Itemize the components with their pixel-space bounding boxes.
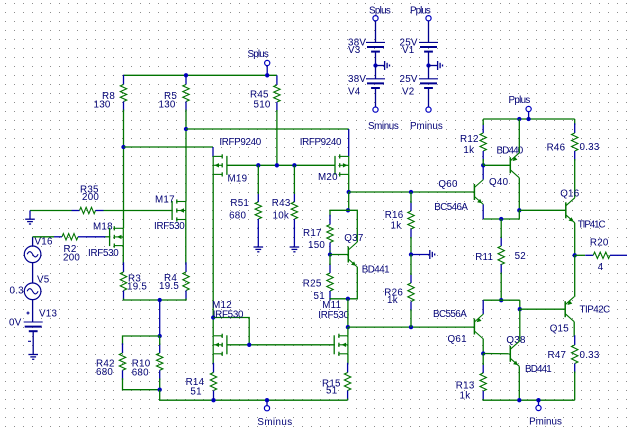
resistor R13 (480, 363, 486, 400)
svg-text:52: 52 (515, 251, 526, 262)
label R8 (102, 91, 115, 102)
svg-text:V16: V16 (35, 236, 53, 247)
mosfet M11 (334, 334, 348, 356)
wire down to Q38 collector (519, 309, 521, 341)
svg-text:Pminus: Pminus (410, 121, 443, 132)
wire R46 corner (574, 119, 576, 125)
wire R11 feed (500, 219, 502, 238)
transistor Q60 BC546A (474, 180, 483, 205)
wire V2 bottom lead (428, 88, 430, 107)
svg-text:IRFP9240: IRFP9240 (219, 137, 261, 148)
wire R12 bottom (482, 159, 484, 165)
svg-text:BC556A: BC556A (433, 309, 467, 320)
junction R16 top (409, 190, 413, 194)
battery V1 (419, 42, 438, 51)
wire R51 lead (257, 165, 259, 194)
svg-text:IRFP9240: IRFP9240 (300, 137, 342, 148)
svg-text:51: 51 (314, 291, 325, 302)
resistor R10 (157, 343, 163, 380)
svg-text:51: 51 (326, 386, 337, 397)
label R25 (303, 278, 322, 289)
resistor R42 (119, 343, 125, 380)
svg-text:M20: M20 (318, 172, 338, 183)
wire Pplus terminal lead (528, 112, 530, 120)
wire R20 output lead (618, 254, 627, 256)
wire R26 bottom (410, 310, 412, 328)
svg-text:4: 4 (598, 262, 604, 273)
wire V3 top lead (375, 21, 377, 43)
resistor R25 (327, 263, 333, 300)
wire V16 top lead (32, 237, 34, 246)
junction at Splus tap (265, 73, 269, 77)
wire y210 to Q16 base (519, 209, 566, 211)
wire M11 source to R15 (347, 354, 349, 365)
label Pplus of V1 (410, 5, 431, 16)
svg-text:V2: V2 (402, 87, 414, 98)
wire Pminus terminal lead (538, 400, 540, 405)
junction R11 top (499, 217, 503, 221)
label 51 of R14 (190, 386, 201, 397)
svg-text:680: 680 (132, 368, 149, 379)
terminal V1 Pplus (426, 16, 431, 21)
wire R8 to M18 drain (123, 110, 125, 229)
wire gate rail M19-M20 (227, 164, 335, 166)
wire M19 gate drop (212, 147, 214, 156)
junction M20 source (347, 190, 351, 194)
label TIP42C of Q15 (580, 304, 611, 315)
mosfet M17 (172, 199, 186, 221)
battery V3 (366, 42, 385, 51)
label R11 (475, 252, 493, 263)
junction M12 gate (247, 343, 251, 347)
label Pminus (529, 417, 562, 427)
source V5 sine (24, 283, 41, 300)
svg-text:38V: 38V (348, 74, 366, 85)
label IRFP9240 of M20 (300, 137, 342, 148)
svg-text:200: 200 (82, 192, 99, 203)
wire M12 gate rail (227, 344, 335, 346)
junction R26 bottom (409, 325, 413, 329)
wire V4 feed (375, 66, 377, 79)
label BD440 of Q40 (497, 146, 524, 157)
svg-text:R12: R12 (460, 134, 479, 145)
label R45 (250, 90, 269, 101)
wire Sminus terminal lead (266, 400, 268, 405)
wire R15 bottom (347, 399, 349, 401)
svg-text:510: 510 (254, 100, 271, 111)
svg-text:Q37: Q37 (344, 233, 363, 244)
wire R16 bottom (410, 237, 412, 255)
svg-text:IRF530: IRF530 (88, 248, 119, 259)
junction Sminus tap (265, 398, 269, 402)
label 0.33 of R47 (580, 350, 600, 361)
wire V16 to V5 (32, 263, 34, 283)
svg-text:Sminus: Sminus (257, 417, 292, 427)
junction R14 bottom (211, 398, 215, 402)
battery V2 (419, 79, 438, 88)
svg-text:R11: R11 (475, 252, 493, 263)
label BD441 of Q38 (525, 364, 552, 375)
label 0.33 of R46 (580, 142, 600, 153)
svg-text:1k: 1k (387, 295, 398, 306)
svg-text:IRF530: IRF530 (318, 310, 349, 321)
terminal V4 Sminus (373, 107, 378, 112)
svg-text:Q40: Q40 (489, 177, 509, 188)
svg-text:Q15: Q15 (550, 324, 570, 335)
resistor R15 (344, 363, 350, 400)
label 130 of R5 (159, 99, 176, 110)
wire Q40 emitter (518, 119, 520, 153)
label V4 (348, 87, 361, 98)
label 10k of R43 (273, 210, 290, 221)
terminal V2 Pminus (426, 107, 431, 112)
svg-text:Q61: Q61 (448, 334, 467, 345)
label BD441 of Q37 (362, 264, 390, 275)
label 1k of R12 (463, 145, 474, 156)
svg-text:1k: 1k (463, 145, 474, 156)
wire Q60 collector (482, 165, 484, 179)
terminal V3 Splus (373, 16, 378, 21)
svg-text:BD441: BD441 (525, 364, 552, 375)
svg-text:0.33: 0.33 (580, 142, 600, 153)
label R15 (322, 378, 341, 389)
label R51 (230, 198, 249, 209)
wire Q37 emitter (348, 267, 357, 299)
ground GND3 below R51 (254, 227, 264, 252)
resistor R8 (120, 75, 126, 111)
wire y300 corner down (519, 300, 521, 309)
svg-text:BC546A: BC546A (434, 202, 468, 213)
wire R20 feed (575, 254, 585, 256)
wire Q61 emitter up (482, 300, 484, 314)
svg-text:Pminus: Pminus (529, 417, 562, 427)
resistor R45 (274, 75, 280, 111)
svg-text:Pplus: Pplus (410, 5, 431, 16)
wire R43 lead (293, 165, 295, 194)
wire R17 bottom (329, 251, 331, 255)
resistor R5 (183, 75, 189, 111)
svg-text:BD441: BD441 (362, 264, 390, 275)
label 51 of R25 (314, 291, 325, 302)
junction Q40 emitter top (517, 117, 521, 121)
transistor Q16 TIP41C (566, 198, 575, 223)
label 25V of V1 (400, 37, 418, 48)
svg-text:TIP42C: TIP42C (580, 304, 611, 315)
wire V1 top lead (428, 21, 430, 43)
label 1k of R13 (460, 391, 471, 402)
label R4 (164, 273, 177, 284)
wire Q15 collector down (573, 322, 575, 337)
svg-text:25V: 25V (400, 74, 418, 85)
label 200 of R35 (82, 192, 99, 203)
junction y210 R17 tap (346, 208, 350, 212)
svg-text:R17: R17 (303, 228, 322, 239)
mosfet M18 (110, 226, 124, 248)
label V13 (39, 308, 57, 319)
svg-text:150: 150 (308, 240, 325, 251)
battery V4 (366, 79, 385, 88)
wire M19 source down (212, 174, 214, 335)
wire M20 source down (348, 174, 350, 192)
resistor R47 (572, 335, 578, 373)
junction R10 bottom (158, 388, 162, 392)
svg-text:19.5: 19.5 (159, 281, 179, 292)
label 0.3 of V5 (10, 286, 25, 297)
transistor Q37 BD441 (348, 242, 357, 267)
mosfet M12 (213, 334, 227, 356)
wire Q40c down to y219 (483, 210, 519, 219)
label V16 (35, 236, 53, 247)
label Q60 (438, 179, 458, 190)
terminal Pminus (536, 405, 541, 410)
svg-text:R47: R47 (548, 350, 567, 361)
terminal Splus (265, 60, 270, 65)
label BC556A of Q61 (433, 309, 467, 320)
wire Q37 collector (348, 210, 357, 242)
label Pminus of V2 (410, 121, 443, 132)
junction V1-V2 mid (426, 63, 430, 67)
label Splus node (248, 49, 270, 60)
junction M11 drain tap (346, 325, 350, 329)
wire R13 to Pminus rail (483, 399, 575, 400)
label M19 (228, 174, 248, 185)
label IRFP9240 of M19 (219, 137, 261, 148)
wire to Sminus rail (160, 390, 348, 401)
label R13 (456, 380, 475, 391)
resistor R3 (120, 262, 126, 300)
junction Pminus tap (536, 398, 540, 402)
label 130 of R8 (94, 99, 111, 110)
label 510 of R45 (254, 100, 271, 111)
svg-text:10k: 10k (273, 210, 290, 221)
junction Pplus tap (526, 117, 530, 121)
label 680 of R10 (132, 368, 149, 379)
wire y129 to M20 drain (186, 128, 349, 130)
label 0V (9, 317, 22, 328)
svg-text:Sminus: Sminus (368, 121, 399, 132)
wire R46 to Q16 collector (574, 159, 576, 198)
label 1k of R26 (387, 295, 398, 306)
label R2 (64, 244, 77, 255)
wire R12 top (482, 119, 484, 125)
label M12 (212, 300, 232, 311)
wire M18 source to R3 (122, 246, 124, 264)
junction Q61c-R13-Q38 (481, 351, 485, 355)
label R5 (164, 91, 177, 102)
terminal Pplus (526, 106, 531, 111)
label M20 (318, 172, 338, 183)
ground GND6 at V3-V4 (376, 61, 390, 70)
label R46 (547, 143, 566, 154)
wire R16 feed (410, 192, 412, 203)
junction R43 top (292, 163, 296, 167)
wire R45 to gate rail (276, 110, 278, 165)
wire R25 feed (329, 255, 331, 266)
resistor R11 (498, 236, 504, 274)
label Q38 (506, 335, 526, 346)
wire M12 source to R14 (212, 354, 214, 365)
wire R5 to M17 drain (185, 110, 187, 202)
junction R8 M19gate (121, 145, 125, 149)
label R26 (384, 288, 403, 299)
label Q16 (560, 188, 580, 199)
wire Splus rail y75 (124, 74, 277, 76)
transistor Q15 TIP42C (565, 297, 574, 322)
transistor Q38 BD441 (510, 341, 519, 366)
wire R47 to Pminus rail (574, 372, 576, 401)
svg-text:V5: V5 (37, 274, 50, 285)
svg-text:1k: 1k (460, 391, 471, 402)
wire Splus terminal lead (266, 66, 268, 76)
svg-text:200: 200 (63, 253, 80, 264)
ground GND2 below V13 (28, 331, 38, 359)
svg-text:Q60: Q60 (438, 179, 458, 190)
junction R11 bottom node (499, 298, 503, 302)
junction R12 bottom (481, 163, 485, 167)
label M17 (155, 194, 175, 205)
label Q61 (448, 334, 467, 345)
junction R51 top (256, 163, 260, 167)
label V3 (348, 45, 361, 56)
svg-text:R20: R20 (590, 238, 609, 249)
svg-text:19.5: 19.5 (127, 281, 147, 292)
svg-text:R46: R46 (547, 143, 566, 154)
svg-text:V13: V13 (39, 308, 57, 319)
svg-text:R16: R16 (385, 210, 404, 221)
resistor R17 (327, 215, 333, 252)
wire Q37 base (330, 254, 348, 256)
label 200 of R2 (63, 253, 80, 264)
wire Q38 base (483, 353, 510, 355)
svg-text:Splus: Splus (248, 49, 270, 60)
wire V5 to V13 (32, 300, 34, 322)
resistor R51 (255, 192, 261, 228)
label Sminus of V4 (368, 121, 399, 132)
label R16 (385, 210, 404, 221)
ground GND4 below R43 (290, 227, 300, 252)
source V16 sine (24, 246, 41, 263)
label V5 (37, 274, 50, 285)
ground GND5 sideways at R16 (411, 250, 435, 259)
svg-text:680: 680 (96, 367, 113, 378)
label Splus of V3 (369, 5, 391, 16)
label IRF530 of M17 (154, 221, 185, 232)
wire R25 bottom jog (330, 298, 348, 300)
wire R35 to M17 gate (104, 210, 173, 212)
battery V13 (24, 312, 43, 342)
label R3 (128, 273, 141, 284)
junction M12 drain tap (211, 315, 215, 319)
wire Pplus rail (483, 118, 575, 120)
resistor R46 (572, 123, 578, 160)
resistor R4 (183, 262, 189, 300)
label 4 of R20 (598, 262, 604, 273)
wire M11 drain up (347, 327, 349, 336)
svg-text:130: 130 (94, 99, 111, 110)
resistor R20 (585, 252, 618, 258)
label TIP41C of Q16 (578, 220, 606, 231)
wire M20src to y210 (348, 192, 350, 210)
wire V1 to mid (428, 52, 430, 66)
label 52 of R11 (515, 251, 526, 262)
wire Q16 emitter down (574, 223, 576, 256)
junction Q40c node (517, 208, 521, 212)
svg-text:680: 680 (229, 210, 246, 221)
junction R16-R26 mid (409, 252, 413, 256)
label 25V of V2 (400, 74, 418, 85)
label V2 (402, 87, 414, 98)
junction Q15 base node (518, 307, 522, 311)
svg-text:1k: 1k (391, 221, 402, 232)
junction R10 top (158, 334, 162, 338)
label M18 (93, 222, 113, 233)
label M11 (322, 300, 341, 311)
junction Q38e bottom (517, 398, 521, 402)
label 1k of R16 (391, 221, 402, 232)
svg-text:Q16: Q16 (560, 188, 580, 199)
wire M20 drain drop (348, 129, 350, 156)
label R20 (590, 238, 609, 249)
ground GND1 at R35 input (25, 211, 35, 225)
wire Q15 base (520, 308, 565, 310)
wire y300 rail (483, 299, 520, 301)
label 19.5 of R4 (159, 281, 179, 292)
label Q40 (489, 177, 509, 188)
label R42 (96, 358, 115, 369)
wire R13 feed (482, 354, 484, 366)
wire V4 bottom lead (375, 88, 377, 107)
svg-text:V4: V4 (348, 87, 361, 98)
label Pplus node (509, 95, 531, 106)
label R17 (303, 228, 322, 239)
label 680 of R51 (229, 210, 246, 221)
label IRF530 of M18 (88, 248, 119, 259)
svg-text:TIP41C: TIP41C (578, 220, 606, 231)
svg-text:R13: R13 (456, 380, 475, 391)
wire R42 top rail (123, 336, 160, 345)
wire Q60 emitter (482, 205, 484, 220)
svg-text:Pplus: Pplus (509, 95, 531, 106)
wire R11 bottom (500, 273, 502, 301)
svg-text:V3: V3 (348, 45, 361, 56)
label BC546A of Q60 (434, 202, 468, 213)
junction Q37e-M11 node (346, 297, 350, 301)
label Sminus (257, 417, 292, 427)
wire V3 to mid (375, 52, 377, 66)
label 38V of V4 (348, 74, 366, 85)
svg-text:0.33: 0.33 (580, 350, 600, 361)
wire V16 to R2 (33, 236, 54, 238)
svg-text:130: 130 (159, 99, 176, 110)
wire to Q15 emitter (574, 255, 576, 296)
mosfet M20 (335, 154, 349, 176)
svg-text:R43: R43 (272, 198, 291, 209)
label IRF530 of M12 (213, 310, 244, 321)
label Q15 (550, 324, 570, 335)
wire Q61 collector (482, 339, 484, 354)
label R47 (548, 350, 567, 361)
svg-text:51: 51 (190, 386, 201, 397)
svg-text:V1: V1 (402, 45, 414, 56)
resistor R43 (291, 192, 297, 228)
wire M17 source to R4 (185, 220, 187, 265)
resistor R16 (408, 201, 414, 238)
label 38V of V3 (348, 37, 366, 48)
label IRF530 of M11 (318, 310, 349, 321)
wire Q40 collector (518, 178, 520, 211)
wire V2 feed (428, 66, 430, 79)
wire jog to M12 gate (213, 318, 249, 345)
